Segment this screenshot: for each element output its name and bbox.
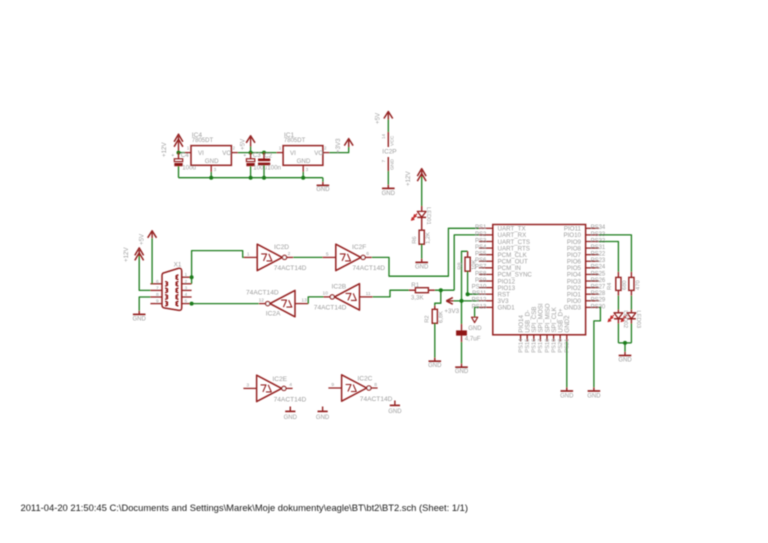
svg-text:+: + <box>171 153 174 159</box>
svg-text:PS16: PS16 <box>532 339 538 353</box>
svg-text:+5V: +5V <box>374 112 381 124</box>
svg-text:PS7: PS7 <box>475 265 487 271</box>
svg-text:GND: GND <box>455 369 469 375</box>
IC4 pin 2 VO <box>231 152 238 154</box>
svg-text:PS19: PS19 <box>551 339 557 353</box>
svg-text:PS23: PS23 <box>591 258 606 264</box>
svg-text:9: 9 <box>156 299 159 305</box>
svg-text:74ACT14D: 74ACT14D <box>274 397 307 404</box>
svg-text:GND: GND <box>468 326 482 332</box>
ground symbol (spare 3) <box>394 401 396 406</box>
module pin PS26 PIO3 <box>586 280 599 282</box>
svg-text:680: 680 <box>622 280 628 290</box>
resistor R4 680 <box>617 272 619 278</box>
wire IC2P GND to ground <box>387 171 389 185</box>
svg-text:X1: X1 <box>174 261 182 268</box>
svg-text:GND: GND <box>560 393 574 399</box>
svg-text:13: 13 <box>301 298 307 304</box>
svg-text:+12V: +12V <box>123 247 130 262</box>
svg-text:2: 2 <box>185 279 188 285</box>
wire IC1 VO to +3V3 <box>329 146 348 152</box>
module pin PS15 USB_D- <box>526 335 528 342</box>
svg-text:6: 6 <box>366 251 369 257</box>
svg-text:GND: GND <box>133 316 147 322</box>
wire C5 to ground <box>461 342 463 364</box>
wire module GND3 (PS30) to ground <box>594 307 601 387</box>
X1 contact hook pin 6 <box>165 282 168 287</box>
svg-text:GND: GND <box>316 415 330 421</box>
ground (C5) <box>461 364 463 368</box>
wire junction to ground <box>624 343 626 352</box>
svg-text:PS17: PS17 <box>538 339 544 353</box>
svg-text:PS3: PS3 <box>475 238 487 244</box>
supply +3V3 (module) <box>446 298 453 305</box>
svg-text:+12V: +12V <box>405 171 412 186</box>
svg-text:PS1: PS1 <box>475 225 487 231</box>
wire X1 pins 1+2 to IC2D input <box>192 251 244 284</box>
svg-text:PS25: PS25 <box>591 271 606 277</box>
wire junction up to PS2 <box>454 235 479 290</box>
svg-text:PS28: PS28 <box>591 291 606 297</box>
svg-text:6: 6 <box>156 279 159 285</box>
svg-text:+3V3: +3V3 <box>444 308 459 315</box>
svg-text:GND: GND <box>390 159 396 170</box>
X1 pin 3 <box>182 289 192 291</box>
svg-text:R4: R4 <box>607 282 613 290</box>
svg-text:2: 2 <box>324 146 327 151</box>
wire LED02 to ground node <box>617 319 619 324</box>
svg-text:2: 2 <box>288 251 291 257</box>
svg-text:PS5: PS5 <box>475 252 487 258</box>
inverter IC2E 74ACT14D (spare) <box>243 387 256 389</box>
module pin PS18 SPI_MISO <box>546 335 548 342</box>
diode LED02 <box>617 310 619 313</box>
svg-text:LED01: LED01 <box>425 207 431 225</box>
module pin PS6 PCM_OUT <box>479 260 493 262</box>
module pin PS21 GND2 <box>566 335 568 342</box>
svg-text:PS15: PS15 <box>525 339 531 353</box>
wire IC2F out to module UART_TX (PS1) <box>372 228 479 276</box>
resistor R1 3.3K <box>409 289 416 291</box>
svg-text:R6: R6 <box>412 236 418 243</box>
node VIN junction <box>177 151 181 155</box>
X1 contact hook pin 9 <box>165 301 168 306</box>
svg-text:R8: R8 <box>457 262 463 269</box>
svg-text:74ACT14D: 74ACT14D <box>274 265 307 272</box>
svg-text:74ACT14D: 74ACT14D <box>360 396 393 403</box>
svg-text:PS13: PS13 <box>472 304 487 310</box>
ground (R6) <box>421 259 423 263</box>
svg-text:GND: GND <box>428 363 442 369</box>
capacitor C4 100u <box>178 153 180 159</box>
wire C4 to ground bus <box>178 166 180 177</box>
supply +5V (regulator rail) <box>246 136 255 143</box>
ground (PS30) <box>593 387 595 391</box>
ground symbol (spare 1) <box>289 407 291 412</box>
wire R1 to module UART_RX (PS2) <box>435 289 454 291</box>
module pin PS22 PIO7 <box>586 254 599 256</box>
wire module GND2 (PS21) to ground <box>566 341 568 387</box>
wire module GND1 to ground arrow <box>475 307 479 317</box>
svg-text:IC2B: IC2B <box>332 284 347 291</box>
svg-text:R1: R1 <box>411 282 419 289</box>
X1 pin 5 <box>182 303 192 305</box>
ground arrow (GND1) <box>472 317 478 322</box>
ground (X1) <box>138 311 140 315</box>
node R1 junction <box>439 288 443 292</box>
wire R8 bottom to RST (PS11) <box>468 271 479 294</box>
module pin PS8 PCM_SYNC <box>479 273 493 275</box>
svg-text:1,2K: 1,2K <box>426 232 432 244</box>
wire +12V to X1 pin 7 <box>139 256 150 290</box>
svg-text:PS27: PS27 <box>591 285 606 291</box>
module pin PS27 PIO2 <box>586 287 599 289</box>
capacitor C2 100n <box>263 153 265 159</box>
module pin PS28 PIO1 <box>586 293 599 295</box>
svg-text:12: 12 <box>259 297 265 303</box>
module pin PS32 PIO9 <box>586 240 599 242</box>
node X1 pin1 junction <box>190 275 194 279</box>
module pin PS29 PIO0 <box>586 300 599 302</box>
svg-text:GND: GND <box>388 409 402 415</box>
svg-text:VO: VO <box>314 150 323 157</box>
wire C2 to ground bus <box>263 165 265 177</box>
IC1 pin 2 VO <box>323 152 330 154</box>
svg-text:GND3: GND3 <box>564 305 582 312</box>
svg-text:C3: C3 <box>253 152 261 159</box>
svg-text:11: 11 <box>366 291 371 297</box>
connector X1 (DB9) <box>162 268 182 310</box>
svg-text:8: 8 <box>156 292 159 298</box>
svg-text:4: 4 <box>185 292 188 298</box>
svg-text:GND: GND <box>284 415 298 421</box>
wire bus to ground symbol <box>322 178 324 182</box>
wire R5 to LED03 <box>630 290 632 295</box>
X1 contact hook pin 8 <box>165 295 168 300</box>
resistor R6 1.2K <box>419 230 424 244</box>
node bus junction C2 <box>262 176 266 180</box>
svg-text:C2: C2 <box>264 152 272 159</box>
svg-text:PS29: PS29 <box>591 298 606 304</box>
svg-text:PS8: PS8 <box>475 271 487 277</box>
svg-text:+12V: +12V <box>161 142 168 157</box>
module pin PS33 PIO10 <box>586 234 599 236</box>
node bus junction C3 <box>249 176 253 180</box>
svg-text:5: 5 <box>185 299 188 305</box>
IC1 pin 1 VI <box>277 152 284 154</box>
X1 contact hook pin 2 <box>176 282 179 287</box>
svg-text:IC2E: IC2E <box>272 376 287 383</box>
svg-text:IC2D: IC2D <box>274 244 289 251</box>
wire IC2A in to IC2B out <box>308 297 323 304</box>
svg-text:PS10: PS10 <box>472 285 487 291</box>
svg-text:GND: GND <box>297 158 311 165</box>
node LED ground junction <box>623 341 627 345</box>
svg-text:GND: GND <box>587 393 601 399</box>
ground symbol (spare 2) <box>322 407 324 412</box>
node bus junction IC1 <box>301 176 305 180</box>
ground bus wire <box>179 177 323 179</box>
node +5V junction C3 <box>249 151 253 155</box>
node +5V junction C2 <box>262 151 266 155</box>
svg-text:PS4: PS4 <box>475 245 487 251</box>
inverter IC2C 74ACT14D (spare) <box>328 387 341 389</box>
module pin PS11 RST <box>479 293 493 295</box>
supply +5V (X1 pin6) <box>148 231 157 238</box>
svg-text:GND: GND <box>618 357 632 363</box>
node R8/RST junction <box>466 292 470 296</box>
bluetooth module U1 <box>493 225 586 335</box>
node X1 pin5 junction <box>190 302 194 306</box>
ground (regulator bus) <box>322 182 324 186</box>
svg-text:VI: VI <box>290 150 296 157</box>
svg-text:PS2: PS2 <box>475 232 487 238</box>
svg-text:+5V: +5V <box>239 138 246 150</box>
supply +3V3 (regulator output) <box>344 139 353 146</box>
svg-text:PS26: PS26 <box>591 278 606 284</box>
X1 pin 8 <box>150 296 162 298</box>
ground (R2) <box>434 358 436 362</box>
capacitor C3 100u <box>250 153 252 159</box>
svg-text:VO: VO <box>222 150 231 157</box>
svg-text:VI: VI <box>198 150 204 157</box>
svg-text:8: 8 <box>374 382 377 388</box>
supply +5V (IC2P) <box>384 112 393 119</box>
diode LED01 <box>421 206 423 211</box>
svg-text:GND1: GND1 <box>498 305 516 312</box>
svg-text:7: 7 <box>381 160 386 163</box>
svg-text:1: 1 <box>187 146 190 151</box>
capacitor C5 4.7uF <box>461 324 463 330</box>
svg-text:R2: R2 <box>425 315 431 322</box>
svg-text:PS21: PS21 <box>565 339 571 353</box>
supply +12V (X1 pin7) <box>135 248 144 256</box>
wire PIO9 (PS32) to R4 <box>599 241 619 271</box>
svg-text:+3V3: +3V3 <box>335 138 342 153</box>
svg-text:LED03: LED03 <box>635 310 641 328</box>
svg-text:7: 7 <box>156 285 159 291</box>
node bus junction IC4 <box>209 176 213 180</box>
X1 pin 1 <box>182 276 192 278</box>
inverter IC2F 74ACT14D <box>323 256 336 258</box>
module pin PS23 PIO6 <box>586 260 599 262</box>
IC4 pin 1 VI <box>185 152 191 154</box>
module pin PS10 PIO13 <box>479 287 493 289</box>
X1 contact hook pin 5 <box>176 301 179 306</box>
module pin PS4 UART_RTS <box>479 247 493 249</box>
svg-text:PS34: PS34 <box>591 225 606 231</box>
ground (PS21) <box>566 387 568 391</box>
svg-text:PS22: PS22 <box>591 252 606 258</box>
svg-text:IC2C: IC2C <box>357 376 372 383</box>
wire X1 pin 8 to ground <box>139 297 150 311</box>
svg-text:PS18: PS18 <box>545 339 551 353</box>
svg-text:3: 3 <box>214 167 217 172</box>
X1 contact hook pin 7 <box>165 288 168 293</box>
wire junction down to R2 <box>435 290 441 306</box>
resistor R5 470 <box>630 272 632 278</box>
svg-text:4,7uF: 4,7uF <box>465 336 481 343</box>
module pin PS12 3V3 <box>479 300 493 302</box>
resistor R8 10K pullup <box>467 251 469 257</box>
svg-text:GND: GND <box>316 187 330 193</box>
svg-text:74ACT14D: 74ACT14D <box>246 290 279 297</box>
svg-text:IC2A: IC2A <box>266 310 281 317</box>
wire +3V3 to module 3V3 (PS12) <box>454 300 479 302</box>
module pin PS13 GND1 <box>479 306 493 308</box>
svg-text:PS30: PS30 <box>591 304 606 310</box>
svg-text:PS12: PS12 <box>472 298 487 304</box>
svg-text:3: 3 <box>185 285 188 291</box>
X1 contact hook pin 3 <box>176 288 179 293</box>
svg-text:1: 1 <box>185 272 188 278</box>
svg-text:4: 4 <box>289 382 292 388</box>
svg-text:PS24: PS24 <box>591 265 606 271</box>
module pin PS19 SPI_CLK <box>553 335 555 342</box>
X1 contact hook pin 4 <box>176 295 179 300</box>
module pin PS20 USB_D+ <box>559 335 561 342</box>
svg-text:PS9: PS9 <box>475 278 487 284</box>
ground (IC2P) <box>387 185 389 189</box>
svg-text:100n: 100n <box>267 165 281 172</box>
module pin PS24 PIO5 <box>586 267 599 269</box>
wire +12V node to IC4 VI <box>179 152 185 154</box>
supply +12V (top left) <box>174 134 183 142</box>
module pin PS30 GND3 <box>586 306 599 308</box>
svg-text:7805DT: 7805DT <box>192 138 214 144</box>
svg-text:PS14: PS14 <box>518 338 524 353</box>
X1 pin 2 <box>182 283 192 285</box>
svg-text:470: 470 <box>636 280 642 290</box>
X1 pin 7 <box>150 289 162 291</box>
module pin PS5 PCM_CLK <box>479 254 493 256</box>
wire C3 to ground bus <box>250 166 252 177</box>
ground (LEDs) <box>624 352 626 356</box>
module pin PS9 PIO12 <box>479 280 493 282</box>
module pin PS3 UART_CTS <box>479 240 493 242</box>
svg-text:LED02: LED02 <box>622 310 628 328</box>
inverter IC2D 74ACT14D <box>244 256 257 258</box>
svg-text:7805DT: 7805DT <box>284 138 306 144</box>
node +3V3 junction <box>460 299 464 303</box>
svg-text:1: 1 <box>279 146 282 151</box>
wire R2 to ground <box>434 323 436 357</box>
wire IC1 GND to bus <box>302 172 304 178</box>
svg-text:14: 14 <box>381 133 386 139</box>
module pin PS17 SPI_MOSI <box>539 335 541 342</box>
wire +12V to LED01 <box>421 177 423 207</box>
module pin PS16 SPI_CSB <box>533 335 535 342</box>
module pin PS25 PIO4 <box>586 273 599 275</box>
wire R6 to ground <box>421 244 423 259</box>
module pin PS2 UART_RX <box>479 234 493 236</box>
diode LED03 <box>630 310 632 313</box>
IC2P pin 7 GND <box>387 157 389 171</box>
wire LED01 to R6 <box>421 217 423 230</box>
svg-text:5: 5 <box>326 251 329 257</box>
wire LED03 to ground node <box>630 319 632 324</box>
voltage regulator IC1 7805DT <box>283 146 323 166</box>
voltage regulator IC4 7805DT <box>191 146 231 166</box>
X1 pin 4 <box>182 296 192 298</box>
svg-text:PS6: PS6 <box>475 258 487 264</box>
svg-text:1: 1 <box>247 251 250 257</box>
module pin PS14 PIO14 <box>520 335 522 342</box>
IC4 pin 3 GND <box>210 165 212 172</box>
module pin PS34 PIO11 <box>586 227 599 229</box>
svg-text:+: + <box>243 153 246 159</box>
wire +3V3 vertical to R8 top and C5 <box>462 251 468 324</box>
inverter IC2B 74ACT14D (mirrored) <box>330 295 334 299</box>
module pin PS31 PIO8 <box>586 247 599 249</box>
svg-text:100u: 100u <box>253 165 267 172</box>
svg-text:3: 3 <box>306 167 309 172</box>
svg-text:3,3K: 3,3K <box>411 295 425 302</box>
svg-text:GND: GND <box>382 191 396 197</box>
svg-text:3: 3 <box>246 382 249 388</box>
svg-text:IC2P: IC2P <box>382 149 396 156</box>
wire PIO10 (PS33) to R5 <box>599 235 632 272</box>
wire LED ground link <box>618 342 631 344</box>
svg-text:74ACT14D: 74ACT14D <box>352 265 385 272</box>
wire +5V rail IC4 VO to IC1 VI <box>238 152 277 154</box>
svg-text:GND: GND <box>205 158 219 165</box>
X1 pin 9 <box>150 303 162 305</box>
wire IC2B in to R1 <box>373 290 409 297</box>
svg-text:IC2F: IC2F <box>352 244 366 251</box>
svg-text:2011-04-20 21:50:45 C:\Docume: 2011-04-20 21:50:45 C:\Documents and Set… <box>21 502 468 513</box>
wire +5V to X1 pin 6 <box>151 238 153 284</box>
X1 pin 6 <box>150 283 162 285</box>
svg-text:GND2: GND2 <box>564 315 571 333</box>
svg-text:VCC: VCC <box>390 135 396 146</box>
wire IC4 GND to bus <box>210 172 212 178</box>
IC1 pin 3 GND <box>302 165 304 172</box>
svg-text:PS11: PS11 <box>472 291 487 297</box>
X1 contact hook pin 1 <box>176 275 179 280</box>
svg-text:GND: GND <box>415 264 429 270</box>
wire R4 to LED02 <box>617 290 619 295</box>
svg-text:9: 9 <box>331 382 334 388</box>
module pin PS1 UART_TX <box>479 227 493 229</box>
wire IC2D out to IC2F in <box>293 256 322 258</box>
module pin PS7 PCM_IN <box>479 267 493 269</box>
inverter IC2A 74ACT14D (mirrored) <box>266 302 270 306</box>
supply +12V (LED01) <box>417 169 426 177</box>
wire +5V to IC2P VCC <box>387 120 389 133</box>
svg-text:2: 2 <box>233 146 236 151</box>
svg-text:+5V: +5V <box>139 233 146 245</box>
svg-text:74ACT14D: 74ACT14D <box>314 304 347 311</box>
svg-text:PS31: PS31 <box>591 245 606 251</box>
svg-text:PS20: PS20 <box>558 339 564 353</box>
wire X1 pin 5 to IC2A output <box>192 303 259 305</box>
svg-text:10: 10 <box>322 291 328 297</box>
resistor R2 6.8K <box>434 306 436 309</box>
IC2P pin 14 VCC <box>387 132 389 147</box>
